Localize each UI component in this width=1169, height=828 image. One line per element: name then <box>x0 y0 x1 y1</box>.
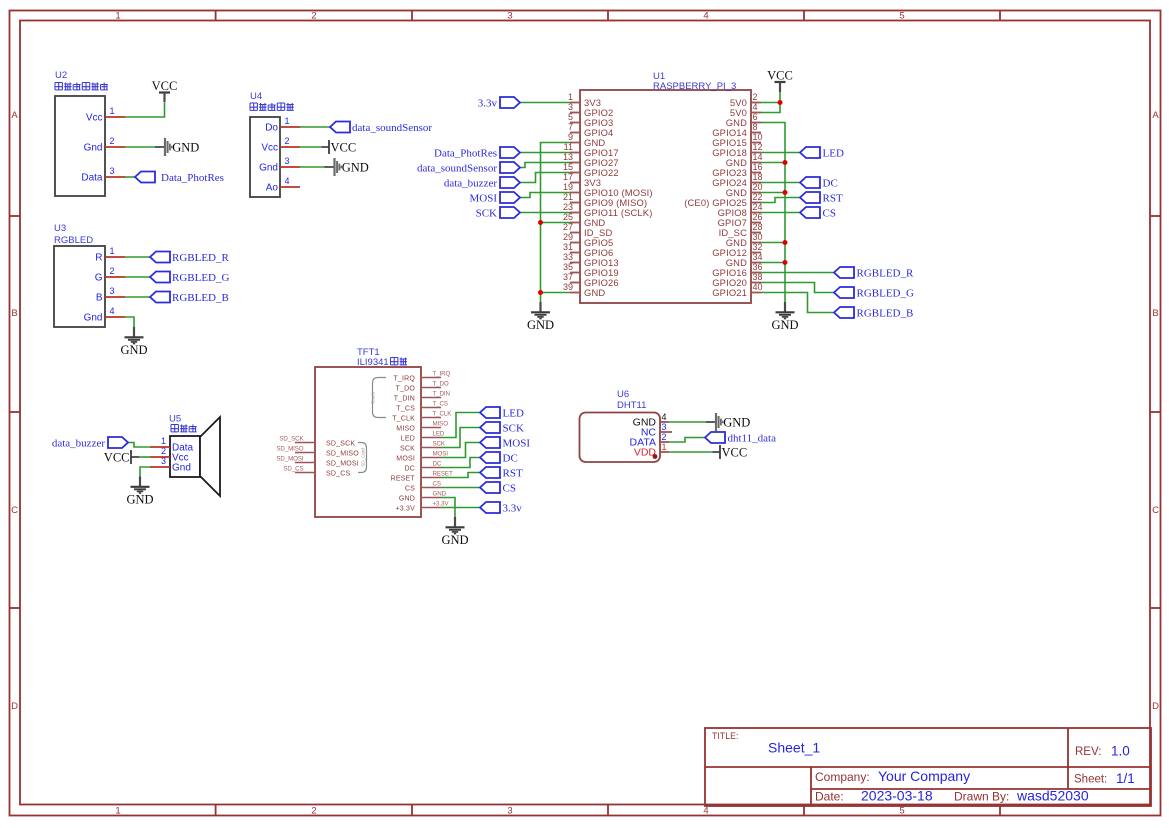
wire U3 R to RGBLED_R <box>125 256 150 258</box>
U3 pin stubs <box>105 257 125 317</box>
svg-text:24: 24 <box>753 202 763 212</box>
svg-text:RASPBERRY_PI_3: RASPBERRY_PI_3 <box>653 81 736 92</box>
svg-text:5: 5 <box>568 112 573 122</box>
svg-text:T_DIN: T_DIN <box>394 396 415 403</box>
wire U1 pin40 to RGBLED_B <box>761 293 834 313</box>
svg-text:TITLE:: TITLE: <box>712 731 738 741</box>
net flag LED <box>480 407 524 420</box>
svg-text:Your Company: Your Company <box>878 768 970 784</box>
svg-text:3.3v: 3.3v <box>503 503 523 515</box>
svg-text:2: 2 <box>110 136 115 146</box>
svg-text:SD_Card: SD_Card <box>361 448 366 467</box>
svg-text:D: D <box>11 701 18 712</box>
svg-text:SCK: SCK <box>476 208 497 220</box>
svg-text:GND: GND <box>120 343 147 357</box>
svg-text:DC: DC <box>433 461 442 468</box>
svg-text:23: 23 <box>563 202 573 212</box>
TFT1 left pin numbers <box>276 436 304 473</box>
net flag RGBLED_R <box>834 267 914 280</box>
net flag RST <box>480 467 523 480</box>
wire U1 pin13 to data_soundSensor <box>520 163 570 168</box>
svg-text:13: 13 <box>563 152 573 162</box>
wire U1 pin18 to DC <box>761 182 800 184</box>
svg-text:RGBLED_G: RGBLED_G <box>172 272 230 284</box>
svg-text:1: 1 <box>568 92 573 102</box>
wire U6 DATA to dht11_data <box>669 438 705 443</box>
svg-text:5: 5 <box>899 11 904 22</box>
svg-text:MISO: MISO <box>396 426 415 433</box>
wire TFT GND pin to GND <box>441 498 455 518</box>
svg-text:2: 2 <box>110 266 115 276</box>
svg-text:GND: GND <box>126 493 153 507</box>
power flag VCC at U5 <box>104 450 139 465</box>
svg-text:dht11_data: dht11_data <box>728 433 777 445</box>
net flag CS <box>800 207 836 220</box>
net flag RGBLED_G <box>150 272 230 285</box>
wire U4 Gnd to GND <box>300 166 325 168</box>
junction VCC pin2 <box>778 100 783 105</box>
svg-text:35: 35 <box>563 262 573 272</box>
svg-text:1: 1 <box>285 116 290 126</box>
svg-text:Date:: Date: <box>815 790 844 804</box>
IC U5 buzzer <box>169 414 220 497</box>
net flag Data_PhotRes <box>135 172 224 185</box>
svg-text:3: 3 <box>507 11 512 22</box>
svg-text:T_DO: T_DO <box>396 386 416 393</box>
svg-text:RGBLED_R: RGBLED_R <box>857 268 915 280</box>
net flag data_soundSensor <box>417 162 520 175</box>
svg-text:data_soundSensor: data_soundSensor <box>417 163 497 175</box>
U2 pin stubs <box>105 117 125 177</box>
svg-text:4: 4 <box>662 412 667 422</box>
svg-text:RST: RST <box>823 193 843 205</box>
svg-text:40: 40 <box>753 282 763 292</box>
svg-text:SCK: SCK <box>503 423 524 435</box>
title block <box>705 728 1151 806</box>
wire U3 G to RGBLED_G <box>125 276 150 278</box>
svg-text:RGBLED_B: RGBLED_B <box>857 308 914 320</box>
svg-text:3: 3 <box>662 422 667 432</box>
wire U1 pin38 to RGBLED_G <box>761 283 834 293</box>
wire TFT SCK pin to SCK flag <box>441 428 480 448</box>
svg-text:RST: RST <box>503 468 523 480</box>
svg-text:MOSI: MOSI <box>469 193 497 205</box>
svg-text:ILI9341: ILI9341 <box>357 357 389 368</box>
wire U2 Gnd to GND <box>125 146 155 148</box>
svg-text:9: 9 <box>568 132 573 142</box>
svg-text:T_CS: T_CS <box>433 401 448 408</box>
svg-text:MOSI: MOSI <box>433 451 449 458</box>
svg-text:26: 26 <box>753 212 763 222</box>
IC U6 DHT11 <box>580 389 661 462</box>
svg-text:RGBLED_G: RGBLED_G <box>857 288 915 300</box>
svg-text:GND: GND <box>172 141 199 155</box>
svg-text:1: 1 <box>161 436 166 446</box>
svg-text:DHT11: DHT11 <box>617 400 646 411</box>
ground symbol GND at U4 <box>325 158 369 176</box>
svg-text:T_CLK: T_CLK <box>433 411 453 418</box>
svg-text:3: 3 <box>110 286 115 296</box>
net flag 3.3v <box>480 502 522 515</box>
svg-text:VCC: VCC <box>331 141 357 155</box>
svg-text:Do: Do <box>265 123 278 134</box>
svg-text:VCC: VCC <box>722 446 748 460</box>
svg-text:RGBLED_R: RGBLED_R <box>172 252 230 264</box>
svg-text:T_IRQ: T_IRQ <box>393 376 415 383</box>
wire U1 pin2 to VCC <box>761 102 780 104</box>
svg-text:4: 4 <box>703 806 708 817</box>
svg-text:G: G <box>95 273 103 284</box>
svg-text:18: 18 <box>753 172 763 182</box>
svg-text:SCK: SCK <box>400 446 415 453</box>
net flag MOSI <box>469 192 520 205</box>
svg-text:wasd52030: wasd52030 <box>1016 788 1089 804</box>
svg-text:T_CS: T_CS <box>396 406 415 413</box>
svg-text:SD_MISO: SD_MISO <box>326 451 359 458</box>
net flag DC <box>480 452 518 465</box>
U5 pin numbers <box>161 436 166 466</box>
wire U1 pin25 GND <box>541 222 571 224</box>
svg-text:3.3v: 3.3v <box>478 98 498 110</box>
wire U1 pin19 to MOSI <box>520 193 570 198</box>
svg-text:8: 8 <box>753 122 758 132</box>
TFT1 touch group bracket <box>373 378 387 418</box>
svg-text:T_DO: T_DO <box>433 381 449 388</box>
wire TFT LED pin to LED flag <box>441 413 480 438</box>
svg-text:CS: CS <box>405 486 415 493</box>
svg-text:4: 4 <box>753 102 758 112</box>
wire U1 pin24 to CS <box>761 212 800 214</box>
svg-text:RGBLED: RGBLED <box>54 235 93 246</box>
power flag VCC at U2 <box>152 79 178 103</box>
U1 left pin stubs <box>570 103 580 293</box>
wire U1 pin11 to Data_PhotRes <box>520 152 570 154</box>
svg-text:SD_CS: SD_CS <box>283 466 303 473</box>
svg-text:LED: LED <box>401 436 415 443</box>
svg-text:14: 14 <box>753 152 763 162</box>
wire TFT +3.3V pin to 3.3v flag <box>441 507 480 509</box>
U4 pin stubs <box>280 127 300 187</box>
svg-text:data_buzzer: data_buzzer <box>52 438 105 450</box>
svg-text:Gnd: Gnd <box>259 163 278 174</box>
svg-text:VCC: VCC <box>152 79 178 93</box>
U6 pin names <box>630 417 657 459</box>
svg-text:GND: GND <box>441 533 468 547</box>
net flag data_buzzer <box>444 177 520 190</box>
wire U1 pin1 to 3.3v <box>520 102 570 104</box>
U5 pin stubs <box>150 447 170 467</box>
svg-text:1/1: 1/1 <box>1116 771 1135 786</box>
svg-text:LED: LED <box>823 148 844 160</box>
svg-text:3: 3 <box>285 156 290 166</box>
ground symbol GND at U6 <box>706 413 750 431</box>
svg-text:Data_PhotRes: Data_PhotRes <box>434 148 497 160</box>
svg-text:U2: U2 <box>55 70 67 81</box>
title block text <box>712 731 1135 804</box>
svg-text:SD_MOSI: SD_MOSI <box>326 461 359 468</box>
U4 pin names <box>259 123 278 194</box>
svg-text:T_IRQ: T_IRQ <box>433 371 451 378</box>
net flag data_buzzer <box>52 437 128 450</box>
svg-text:RGBLED_B: RGBLED_B <box>172 292 229 304</box>
svg-text:2: 2 <box>311 11 316 22</box>
svg-text:T_DIN: T_DIN <box>433 391 450 398</box>
wire U1 pin36 to RGBLED_R <box>761 272 834 274</box>
TFT1 left pin stubs <box>295 443 315 473</box>
U1 right pin names <box>684 97 747 298</box>
svg-text:A: A <box>1152 110 1159 121</box>
net flag CS <box>480 482 516 495</box>
power flag VCC at U1 <box>767 69 793 93</box>
wire U1 pin20 GND <box>761 192 785 194</box>
svg-text:RESET: RESET <box>391 476 416 483</box>
ground symbol GND at U5 <box>126 477 153 507</box>
svg-text:DC: DC <box>503 453 518 465</box>
TFT1 label 螢幕 <box>391 358 408 365</box>
svg-text:GND: GND <box>723 416 750 430</box>
svg-text:Gnd: Gnd <box>84 143 103 154</box>
U1 left pin names <box>584 97 653 298</box>
IC TFT1 ILI9341 screen <box>315 347 421 517</box>
svg-text:15: 15 <box>563 162 573 172</box>
svg-text:Sheet:: Sheet: <box>1074 774 1107 786</box>
svg-text:1.0: 1.0 <box>1111 744 1130 759</box>
svg-text:32: 32 <box>753 242 763 252</box>
svg-text:39: 39 <box>563 282 573 292</box>
svg-text:1: 1 <box>115 11 120 22</box>
wire U1 pin12 to LED <box>761 152 800 154</box>
ground symbol GND below TFT1 <box>441 517 468 547</box>
net flag RST <box>800 192 843 205</box>
svg-text:C: C <box>11 505 18 516</box>
svg-text:Vcc: Vcc <box>86 113 103 124</box>
svg-text:4: 4 <box>703 11 708 22</box>
svg-text:C: C <box>1152 505 1159 516</box>
svg-text:7: 7 <box>568 122 573 132</box>
svg-text:33: 33 <box>563 252 573 262</box>
U6 pin1 marker dot <box>653 454 658 459</box>
svg-text:16: 16 <box>753 162 763 172</box>
wire U1 pin30 GND <box>761 242 785 244</box>
svg-text:VCC: VCC <box>767 69 793 83</box>
power flag VCC at U6 <box>713 445 748 460</box>
svg-text:U6: U6 <box>617 389 629 400</box>
ground symbol GND below U1 right <box>771 302 798 332</box>
ground symbol GND below U1 left <box>527 302 554 332</box>
svg-text:DC: DC <box>404 466 415 473</box>
svg-text:SD_MOSI: SD_MOSI <box>276 456 304 463</box>
svg-text:LED: LED <box>433 431 445 438</box>
svg-text:CS: CS <box>433 481 441 488</box>
TFT1 right pin stubs <box>421 378 441 508</box>
IC U4 sound sensor <box>250 91 280 197</box>
wire TFT DC pin to DC flag <box>441 458 480 468</box>
svg-text:CS: CS <box>823 208 836 220</box>
wire U2 Data to Data_PhotRes <box>125 176 135 178</box>
power flag VCC at U4 <box>322 140 357 155</box>
svg-text:34: 34 <box>753 252 763 262</box>
svg-text:GND: GND <box>342 161 369 175</box>
wire U4 Do to data_soundSensor <box>300 126 330 128</box>
net flag RGBLED_R <box>150 252 230 265</box>
wire U6 GND pin to GND <box>669 421 706 423</box>
wire TFT MOSI pin to MOSI flag <box>441 443 480 458</box>
svg-text:Gnd: Gnd <box>172 463 191 474</box>
net flag SCK <box>476 207 520 220</box>
svg-text:20: 20 <box>753 182 763 192</box>
svg-text:SCK: SCK <box>433 441 446 448</box>
wire U1 pin34 GND <box>761 262 785 264</box>
IC U2 photoresistor module <box>55 70 105 196</box>
svg-text:GND: GND <box>771 318 798 332</box>
svg-text:2: 2 <box>753 92 758 102</box>
svg-text:22: 22 <box>753 192 763 202</box>
net flag MOSI <box>480 437 530 450</box>
svg-text:U3: U3 <box>54 223 66 234</box>
svg-text:2: 2 <box>311 806 316 817</box>
svg-text:28: 28 <box>753 222 763 232</box>
net flag 3.3v <box>478 97 520 110</box>
svg-text:2: 2 <box>662 432 667 442</box>
svg-text:Gnd: Gnd <box>84 313 103 324</box>
svg-text:21: 21 <box>563 192 573 202</box>
wire U1 pin14 GND <box>761 162 785 164</box>
U3 pin names <box>84 253 103 324</box>
ground symbol GND at U3 <box>120 327 147 357</box>
U5 label 蜂鳴器 <box>171 425 197 432</box>
svg-text:data_buzzer: data_buzzer <box>444 178 497 190</box>
svg-text:SD_SCK: SD_SCK <box>326 441 355 448</box>
svg-text:DC: DC <box>823 178 838 190</box>
svg-text:CS: CS <box>503 483 516 495</box>
net flag data_soundSensor <box>330 122 432 135</box>
svg-text:MOSI: MOSI <box>396 456 415 463</box>
U6 pin stubs <box>660 422 672 452</box>
U2 pin names <box>81 113 103 184</box>
svg-text:MISO: MISO <box>433 421 449 428</box>
svg-text:Drawn By:: Drawn By: <box>954 790 1009 804</box>
wire U5 Gnd to GND <box>140 467 150 477</box>
svg-text:4: 4 <box>285 176 290 186</box>
svg-text:T_CLK: T_CLK <box>392 416 415 423</box>
net flag SCK <box>480 422 524 435</box>
svg-text:Data: Data <box>81 173 103 184</box>
U3 pin numbers <box>110 246 115 316</box>
svg-text:MOSI: MOSI <box>503 438 531 450</box>
U1 left pin numbers <box>563 92 573 292</box>
wire TFT CS pin to CS flag <box>441 487 480 489</box>
svg-text:GND: GND <box>433 491 447 498</box>
svg-text:REV:: REV: <box>1075 746 1101 758</box>
junction GND bus pin20 <box>783 190 788 195</box>
TFT1 SD group bracket <box>358 443 367 473</box>
svg-text:Ao: Ao <box>266 183 279 194</box>
svg-text:B: B <box>96 293 103 304</box>
U2 pin numbers <box>110 106 115 176</box>
svg-text:GPIO21: GPIO21 <box>712 287 747 298</box>
svg-text:SD_CS: SD_CS <box>326 471 350 478</box>
svg-text:LED: LED <box>503 408 524 420</box>
net flag dht11_data <box>705 432 776 445</box>
wire U1 pin39 GND <box>541 292 571 294</box>
svg-text:27: 27 <box>563 222 573 232</box>
net flag RGBLED_G <box>834 287 914 300</box>
svg-text:U4: U4 <box>250 91 262 102</box>
svg-text:3: 3 <box>568 102 573 112</box>
svg-text:2: 2 <box>285 136 290 146</box>
svg-text:GND: GND <box>584 287 605 298</box>
U1 right pin numbers <box>753 92 763 292</box>
svg-text:19: 19 <box>563 182 573 192</box>
svg-text:+3.3V: +3.3V <box>433 501 450 508</box>
svg-text:38: 38 <box>753 272 763 282</box>
svg-text:B: B <box>11 308 17 319</box>
junction GND bus pin14 <box>783 160 788 165</box>
IC U1 RASPBERRY_PI_3 <box>580 71 751 303</box>
svg-text:2023-03-18: 2023-03-18 <box>861 788 933 804</box>
wire U6 VDD to VCC <box>669 451 713 453</box>
svg-text:Company:: Company: <box>815 770 870 784</box>
svg-text:1: 1 <box>115 806 120 817</box>
svg-text:R: R <box>95 253 102 264</box>
wire U5 Vcc to VCC <box>139 456 150 458</box>
svg-text:RESET: RESET <box>433 471 453 478</box>
U5 pin names <box>172 443 194 474</box>
net flag LED <box>800 147 844 160</box>
svg-text:GND: GND <box>527 318 554 332</box>
wire U4 Vcc to VCC <box>300 146 322 148</box>
svg-text:SD_MISO: SD_MISO <box>276 446 303 453</box>
junction GND bus pin34 <box>783 260 788 265</box>
svg-text:11: 11 <box>564 142 573 152</box>
wire U3 B to RGBLED_B <box>125 296 150 298</box>
U4 label 聲音感測器 <box>250 103 294 110</box>
IC U3 RGBLED <box>54 223 105 327</box>
svg-text:36: 36 <box>753 262 763 272</box>
svg-text:GND: GND <box>399 496 415 503</box>
svg-text:5: 5 <box>899 806 904 817</box>
svg-text:25: 25 <box>563 212 573 222</box>
TFT1 right pin numbers <box>433 371 453 508</box>
svg-text:6: 6 <box>753 112 758 122</box>
svg-text:Vcc: Vcc <box>261 143 278 154</box>
svg-text:Sheet_1: Sheet_1 <box>768 740 820 756</box>
svg-text:SD_SCK: SD_SCK <box>279 436 304 443</box>
wire U1 pin23 to SCK <box>520 212 570 214</box>
TFT1 left pin names <box>326 441 359 478</box>
wire U2 Vcc to VCC <box>125 103 165 117</box>
svg-text:1: 1 <box>110 246 115 256</box>
wire U1 GND bus left <box>541 143 571 303</box>
wire U5 Data to data_buzzer <box>128 443 150 448</box>
svg-text:Touch: Touch <box>371 392 376 405</box>
U2 label 光敏電阻模組 <box>55 83 108 90</box>
svg-text:D: D <box>1152 701 1159 712</box>
svg-text:B: B <box>1152 308 1158 319</box>
U1 right pin stubs <box>751 103 761 293</box>
svg-text:VCC: VCC <box>104 451 130 465</box>
svg-text:30: 30 <box>753 232 763 242</box>
wire U1 pin22 to RST <box>761 198 800 203</box>
svg-text:Data_PhotRes: Data_PhotRes <box>161 172 224 184</box>
U6 pin numbers <box>662 412 667 452</box>
svg-text:10: 10 <box>753 132 763 142</box>
net flag RGBLED_B <box>834 307 913 320</box>
svg-text:37: 37 <box>563 272 573 282</box>
svg-text:31: 31 <box>563 242 573 252</box>
wire U3 Gnd to GND <box>125 317 134 327</box>
junction GND bus pin39 <box>538 290 543 295</box>
